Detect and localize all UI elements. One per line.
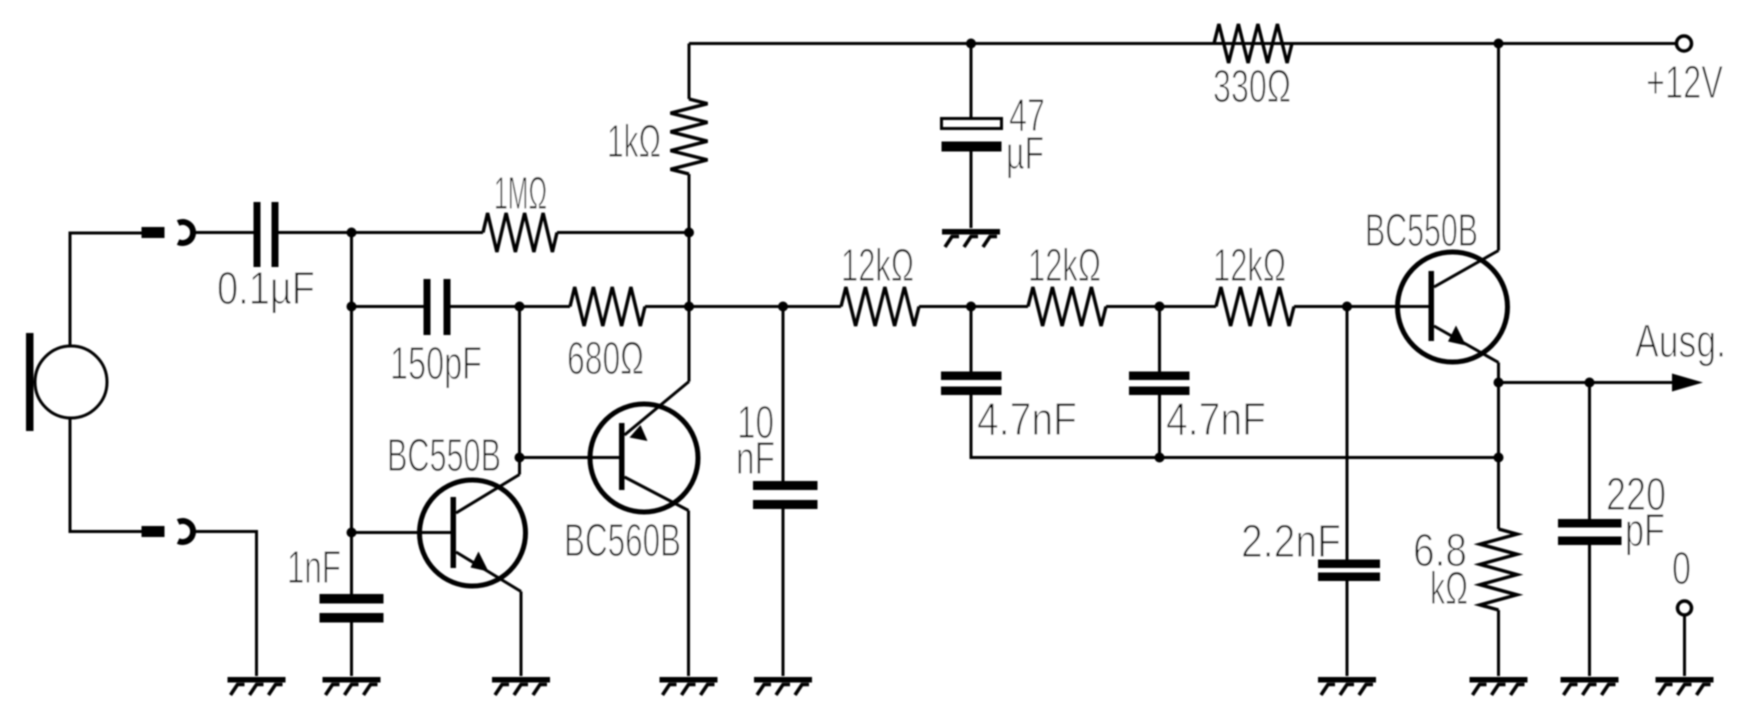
svg-text:0: 0 xyxy=(1672,542,1691,594)
wire R 12kΩ third to node I xyxy=(1294,305,1429,308)
wire Q1 base from node N xyxy=(352,531,451,534)
wire node F to R 12kΩ first xyxy=(783,305,841,308)
svg-text:1MΩ: 1MΩ xyxy=(494,167,547,219)
ground (10nF) xyxy=(754,677,812,695)
wire connector to C 0.1µF xyxy=(194,231,254,234)
wire 4.7nF second bottom xyxy=(1158,395,1161,458)
node G (first 4.7nF top) xyxy=(966,302,976,312)
capacitor 4.7nF (first) xyxy=(941,372,1002,396)
node D (Q1 collector junction) xyxy=(515,302,525,312)
capacitor 10nF xyxy=(753,481,818,509)
node A (input node) xyxy=(347,228,357,238)
wire mic bottom to return row xyxy=(70,418,142,532)
wire output xyxy=(1499,381,1675,384)
wire Q3 emitter down through output and feedback xyxy=(1497,363,1500,530)
ground (220pF) xyxy=(1561,677,1619,695)
ground (0 terminal) xyxy=(1656,677,1714,695)
capacitor 47µF polarized xyxy=(942,119,1002,152)
wire 47µF top xyxy=(970,44,973,120)
resistor R 12kΩ (third) xyxy=(1216,287,1294,326)
microphone MIC xyxy=(26,333,107,431)
wire R 1MΩ to node B xyxy=(557,231,689,234)
wire 1nF bottom to ground xyxy=(350,623,353,677)
capacitor 150pF xyxy=(424,279,451,335)
wire 2.2nF bottom to ground xyxy=(1346,581,1349,676)
transistor Q3 BC550B xyxy=(1398,251,1508,363)
node C (150pF left) xyxy=(347,302,357,312)
node J (47µF top) xyxy=(966,39,976,49)
node M (feedback right) xyxy=(1494,453,1504,463)
wire 1kΩ bottom through node B to node E xyxy=(688,174,691,382)
node P (output node) xyxy=(1494,378,1504,388)
terminal 0 xyxy=(1678,601,1692,615)
ground (Q1 emitter) xyxy=(492,677,550,695)
node B (1kΩ bottom) xyxy=(684,228,694,238)
resistor R 330Ω xyxy=(1214,24,1292,63)
wire node C to C 150pF xyxy=(352,305,425,308)
wire mic top to input row xyxy=(70,233,142,346)
wire node O to Q2 base xyxy=(520,456,620,459)
node O (Q1 collector to Q2 base) xyxy=(515,453,525,463)
node E (emitter rail) xyxy=(684,302,694,312)
svg-text:Ausg.: Ausg. xyxy=(1635,315,1726,367)
node F (10nF top) xyxy=(778,302,788,312)
svg-text:2.2nF: 2.2nF xyxy=(1241,515,1341,567)
svg-text:BC550B: BC550B xyxy=(1365,204,1478,256)
capacitor 2.2nF xyxy=(1318,560,1380,582)
wire C 150pF to node D xyxy=(451,305,520,308)
svg-text:150pF: 150pF xyxy=(390,337,482,389)
wire 47µF bottom to ground xyxy=(970,152,973,229)
wire connector return to ground xyxy=(194,532,257,677)
wire Q1 collector vertical xyxy=(518,307,521,475)
wire 220pF bottom to ground xyxy=(1588,545,1591,676)
wire Q2 collector to ground xyxy=(687,511,690,677)
wire R 12kΩ first to node G xyxy=(919,305,1028,308)
svg-text:µF: µF xyxy=(1006,127,1044,179)
capacitor 1nF xyxy=(320,594,384,623)
wire node A to R 1MΩ xyxy=(352,231,484,234)
node L (feedback mid) xyxy=(1155,453,1165,463)
svg-text:12kΩ: 12kΩ xyxy=(1028,239,1101,291)
top supply rail xyxy=(689,42,1677,45)
wire R 680Ω to node E xyxy=(645,305,689,308)
node K (Q3 collector rail) xyxy=(1494,39,1504,49)
output arrow xyxy=(1672,374,1703,392)
wire 4.7nF second top xyxy=(1158,307,1161,372)
capacitor 4.7nF (second) xyxy=(1129,372,1190,396)
svg-text:330Ω: 330Ω xyxy=(1213,60,1291,112)
svg-text:kΩ: kΩ xyxy=(1430,562,1468,614)
resistor R 12kΩ (first) xyxy=(841,287,919,326)
svg-text:4.7nF: 4.7nF xyxy=(977,393,1077,445)
ground (1nF) xyxy=(323,677,381,695)
ground (2.2nF) xyxy=(1318,677,1376,695)
node H (second 4.7nF top) xyxy=(1155,302,1165,312)
svg-text:pF: pF xyxy=(1625,504,1665,556)
svg-text:12kΩ: 12kΩ xyxy=(841,239,914,291)
resistor R 6.8kΩ xyxy=(1480,529,1517,610)
svg-text:1nF: 1nF xyxy=(287,541,341,593)
svg-text:0.1µF: 0.1µF xyxy=(217,262,315,314)
transistor Q1 BC550B xyxy=(420,475,526,592)
wire 0 terminal to ground xyxy=(1683,615,1686,676)
wire 10nF top xyxy=(782,307,785,482)
svg-text:1kΩ: 1kΩ xyxy=(607,115,661,167)
ground (47µF) xyxy=(942,229,1000,247)
wire node A down to base row xyxy=(350,233,353,595)
wire 4.7nF first bottom to feedback rail xyxy=(971,395,1499,458)
wire 220pF top xyxy=(1588,383,1591,520)
ground (6.8kΩ) xyxy=(1470,677,1528,695)
node I (Q3 base node) xyxy=(1342,302,1352,312)
wire R 12kΩ second to node H xyxy=(1106,305,1216,308)
ground (Q2 collector) xyxy=(660,677,718,695)
svg-text:nF: nF xyxy=(736,432,775,484)
svg-text:BC550B: BC550B xyxy=(387,429,501,481)
ground (mic return) xyxy=(228,677,286,695)
svg-text:12kΩ: 12kΩ xyxy=(1213,239,1286,291)
svg-text:4.7nF: 4.7nF xyxy=(1166,393,1266,445)
resistor R 1MΩ xyxy=(483,213,557,252)
resistor R 12kΩ (second) xyxy=(1028,287,1106,326)
node Q (220pF top) xyxy=(1585,378,1595,388)
svg-text:+12V: +12V xyxy=(1646,56,1723,108)
terminal +12V xyxy=(1677,36,1692,51)
wire C 0.1µF to node A xyxy=(279,231,352,234)
svg-text:BC560B: BC560B xyxy=(564,514,681,566)
connector J2 (return) xyxy=(142,521,194,542)
wire 1kΩ top xyxy=(688,44,691,100)
wire 10nF bottom to ground xyxy=(782,509,785,676)
wire Q1 emitter to ground xyxy=(520,592,523,677)
node N (Q1 base / 1nF) xyxy=(347,528,357,538)
wire 2.2nF top from node I xyxy=(1346,307,1349,560)
connector J1 (signal) xyxy=(142,222,194,243)
wire node E to node F xyxy=(689,305,783,308)
wire 6.8kΩ bottom to ground xyxy=(1497,610,1500,676)
capacitor 0.1µF xyxy=(254,202,279,267)
wire node D to R 680Ω xyxy=(520,305,571,308)
wire Q3 collector to supply rail xyxy=(1497,44,1500,251)
transistor Q2 BC560B xyxy=(590,382,698,513)
wire 4.7nF first top xyxy=(970,307,973,372)
resistor R 680Ω xyxy=(570,287,645,326)
svg-text:680Ω: 680Ω xyxy=(567,332,644,384)
resistor R 1kΩ xyxy=(671,99,708,174)
capacitor 220pF xyxy=(1558,519,1622,545)
